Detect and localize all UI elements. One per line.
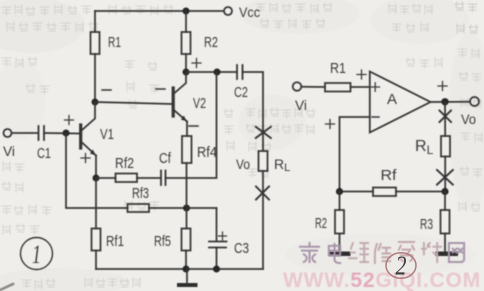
wire inverting input to feedback node [340, 117, 370, 192]
svg-text:1: 1 [32, 240, 41, 269]
svg-text:Vo: Vo [236, 156, 250, 172]
transistor V2 [173, 72, 206, 122]
wire V1 emitter branch down to Rf1 [95, 178, 97, 229]
input terminal Vi (fig1) [3, 129, 15, 159]
corner smudge mark (decorative) [0, 284, 13, 290]
wire C2 to output branch [243, 72, 264, 151]
wire Rf4 down through Rf3 node [186, 163, 188, 229]
figure number 1 [21, 238, 53, 270]
svg-text:A: A [387, 91, 397, 108]
wire C1 to base node [44, 132, 80, 135]
wire op-amp output [431, 101, 471, 103]
svg-text:R1: R1 [330, 60, 346, 77]
wire collector node to C2 [186, 71, 237, 73]
resistor R2 (fig2) [315, 192, 344, 252]
ground symbol (fig1) [177, 269, 198, 287]
svg-text:C3: C3 [234, 240, 249, 257]
svg-text:R1: R1 [108, 34, 121, 51]
resistor R2 [182, 8, 219, 73]
wire feedback from base node down and right (Rf3 line) [66, 133, 128, 208]
minus mark above base wire right [156, 88, 165, 90]
wire Rf3 corner down to C3 [216, 208, 218, 241]
svg-text:WWW.52GIQI.COM: WWW.52GIQI.COM [283, 269, 481, 291]
wire RL down to feedback node [444, 157, 446, 192]
wire base V2 [95, 102, 172, 104]
wire RL through lower X to ground rail [262, 171, 264, 269]
wire emitter feedback line to Rf2 [96, 177, 116, 179]
input terminal Vi (fig2) [293, 82, 307, 113]
svg-text:Rf5: Rf5 [154, 233, 171, 250]
svg-text:V1: V1 [100, 126, 114, 143]
resistor Rf2 [115, 155, 137, 182]
X mark below RL [437, 170, 453, 185]
wire Rf2 to Cf [137, 177, 161, 179]
X mark below output [440, 111, 452, 123]
output terminal Vo (fig2) [461, 97, 479, 127]
resistor Rf5 [154, 229, 191, 270]
capacitor C3 [209, 232, 249, 257]
node Rf3/Rf5 junction [183, 205, 190, 212]
wire Cf right to riser up to output node [166, 72, 217, 178]
svg-text:Rf1: Rf1 [106, 233, 124, 250]
ground symbol left (fig2) [329, 252, 351, 257]
node V1 emitter junction [93, 175, 100, 182]
resistor Rf1 [92, 229, 125, 270]
plus mark above base node [65, 116, 74, 125]
svg-text:R2: R2 [315, 215, 327, 232]
resistor R1 [91, 11, 122, 102]
wire Rf to right junction [396, 191, 445, 193]
resistor R1 (fig2) [325, 60, 351, 92]
plus mark near inverting wire [326, 120, 335, 129]
resistor RL (fig1) [259, 151, 291, 174]
X mark upper output [256, 127, 271, 138]
svg-text:2: 2 [396, 251, 407, 281]
svg-text:R3: R3 [420, 216, 433, 233]
wire Vi to R1 [302, 86, 326, 88]
resistor R3 (fig2) [420, 192, 450, 252]
plus mark before op-amp input [357, 70, 366, 79]
svg-text:V2: V2 [193, 95, 206, 112]
plus mark at V1 emitter [81, 154, 90, 163]
wire C3 to ground rail [216, 248, 218, 270]
resistor RL (fig2) [415, 136, 450, 157]
svg-text:Cf: Cf [159, 150, 172, 167]
wire Vi to C1 [12, 132, 39, 134]
node Rf5 rail junction [183, 266, 190, 273]
svg-text:Vi: Vi [3, 143, 15, 159]
ground symbol right (fig2) [436, 252, 459, 257]
svg-text:Rf4: Rf4 [197, 144, 217, 161]
minus mark below V2 emitter [189, 125, 198, 127]
resistor Rf [373, 167, 397, 196]
op-amp A [370, 72, 431, 133]
capacitor Cf [159, 150, 172, 185]
node C2 branch junction [214, 69, 221, 76]
svg-text:Vi: Vi [295, 97, 307, 113]
svg-text:C2: C2 [234, 84, 248, 101]
capacitor C1 [37, 126, 51, 162]
svg-text:Rf: Rf [381, 167, 398, 184]
node V2 collector junction [183, 69, 190, 76]
node output junction [441, 98, 448, 105]
wire output down to RL [444, 102, 446, 136]
svg-text:Rf2: Rf2 [115, 155, 134, 172]
wire Rf3 to junction [149, 207, 217, 209]
figure number 2 [386, 251, 416, 281]
plus mark above output [438, 82, 447, 91]
X mark lower output [256, 187, 269, 200]
minus mark above base wire left [102, 89, 111, 91]
transistor V1 [81, 102, 114, 156]
svg-text:RL: RL [415, 138, 434, 157]
wire R1 to op-amp [351, 86, 370, 88]
node right feedback junction [441, 188, 448, 195]
node collector V1 junction [92, 99, 99, 106]
wire feedback Rf line [340, 191, 374, 193]
svg-text:Vcc: Vcc [239, 4, 260, 20]
plus mark at V2 collector [192, 59, 201, 68]
node left feedback junction [336, 188, 343, 195]
svg-text:Vo: Vo [461, 111, 476, 127]
capacitor C2 [234, 65, 248, 101]
svg-text:Rf3: Rf3 [132, 185, 149, 202]
wire top supply rail [95, 10, 224, 12]
wire V1 emitter down [95, 156, 97, 179]
wire bottom ground rail [96, 268, 263, 270]
power terminal Vcc [224, 4, 260, 20]
resistor Rf3 [128, 185, 150, 212]
svg-text:R2: R2 [204, 34, 218, 51]
node V1 base junction [63, 130, 70, 137]
svg-text:C1: C1 [37, 145, 51, 162]
node C3 rail junction [213, 266, 220, 273]
resistor Rf4 [182, 122, 217, 164]
svg-text:RL: RL [274, 156, 290, 174]
